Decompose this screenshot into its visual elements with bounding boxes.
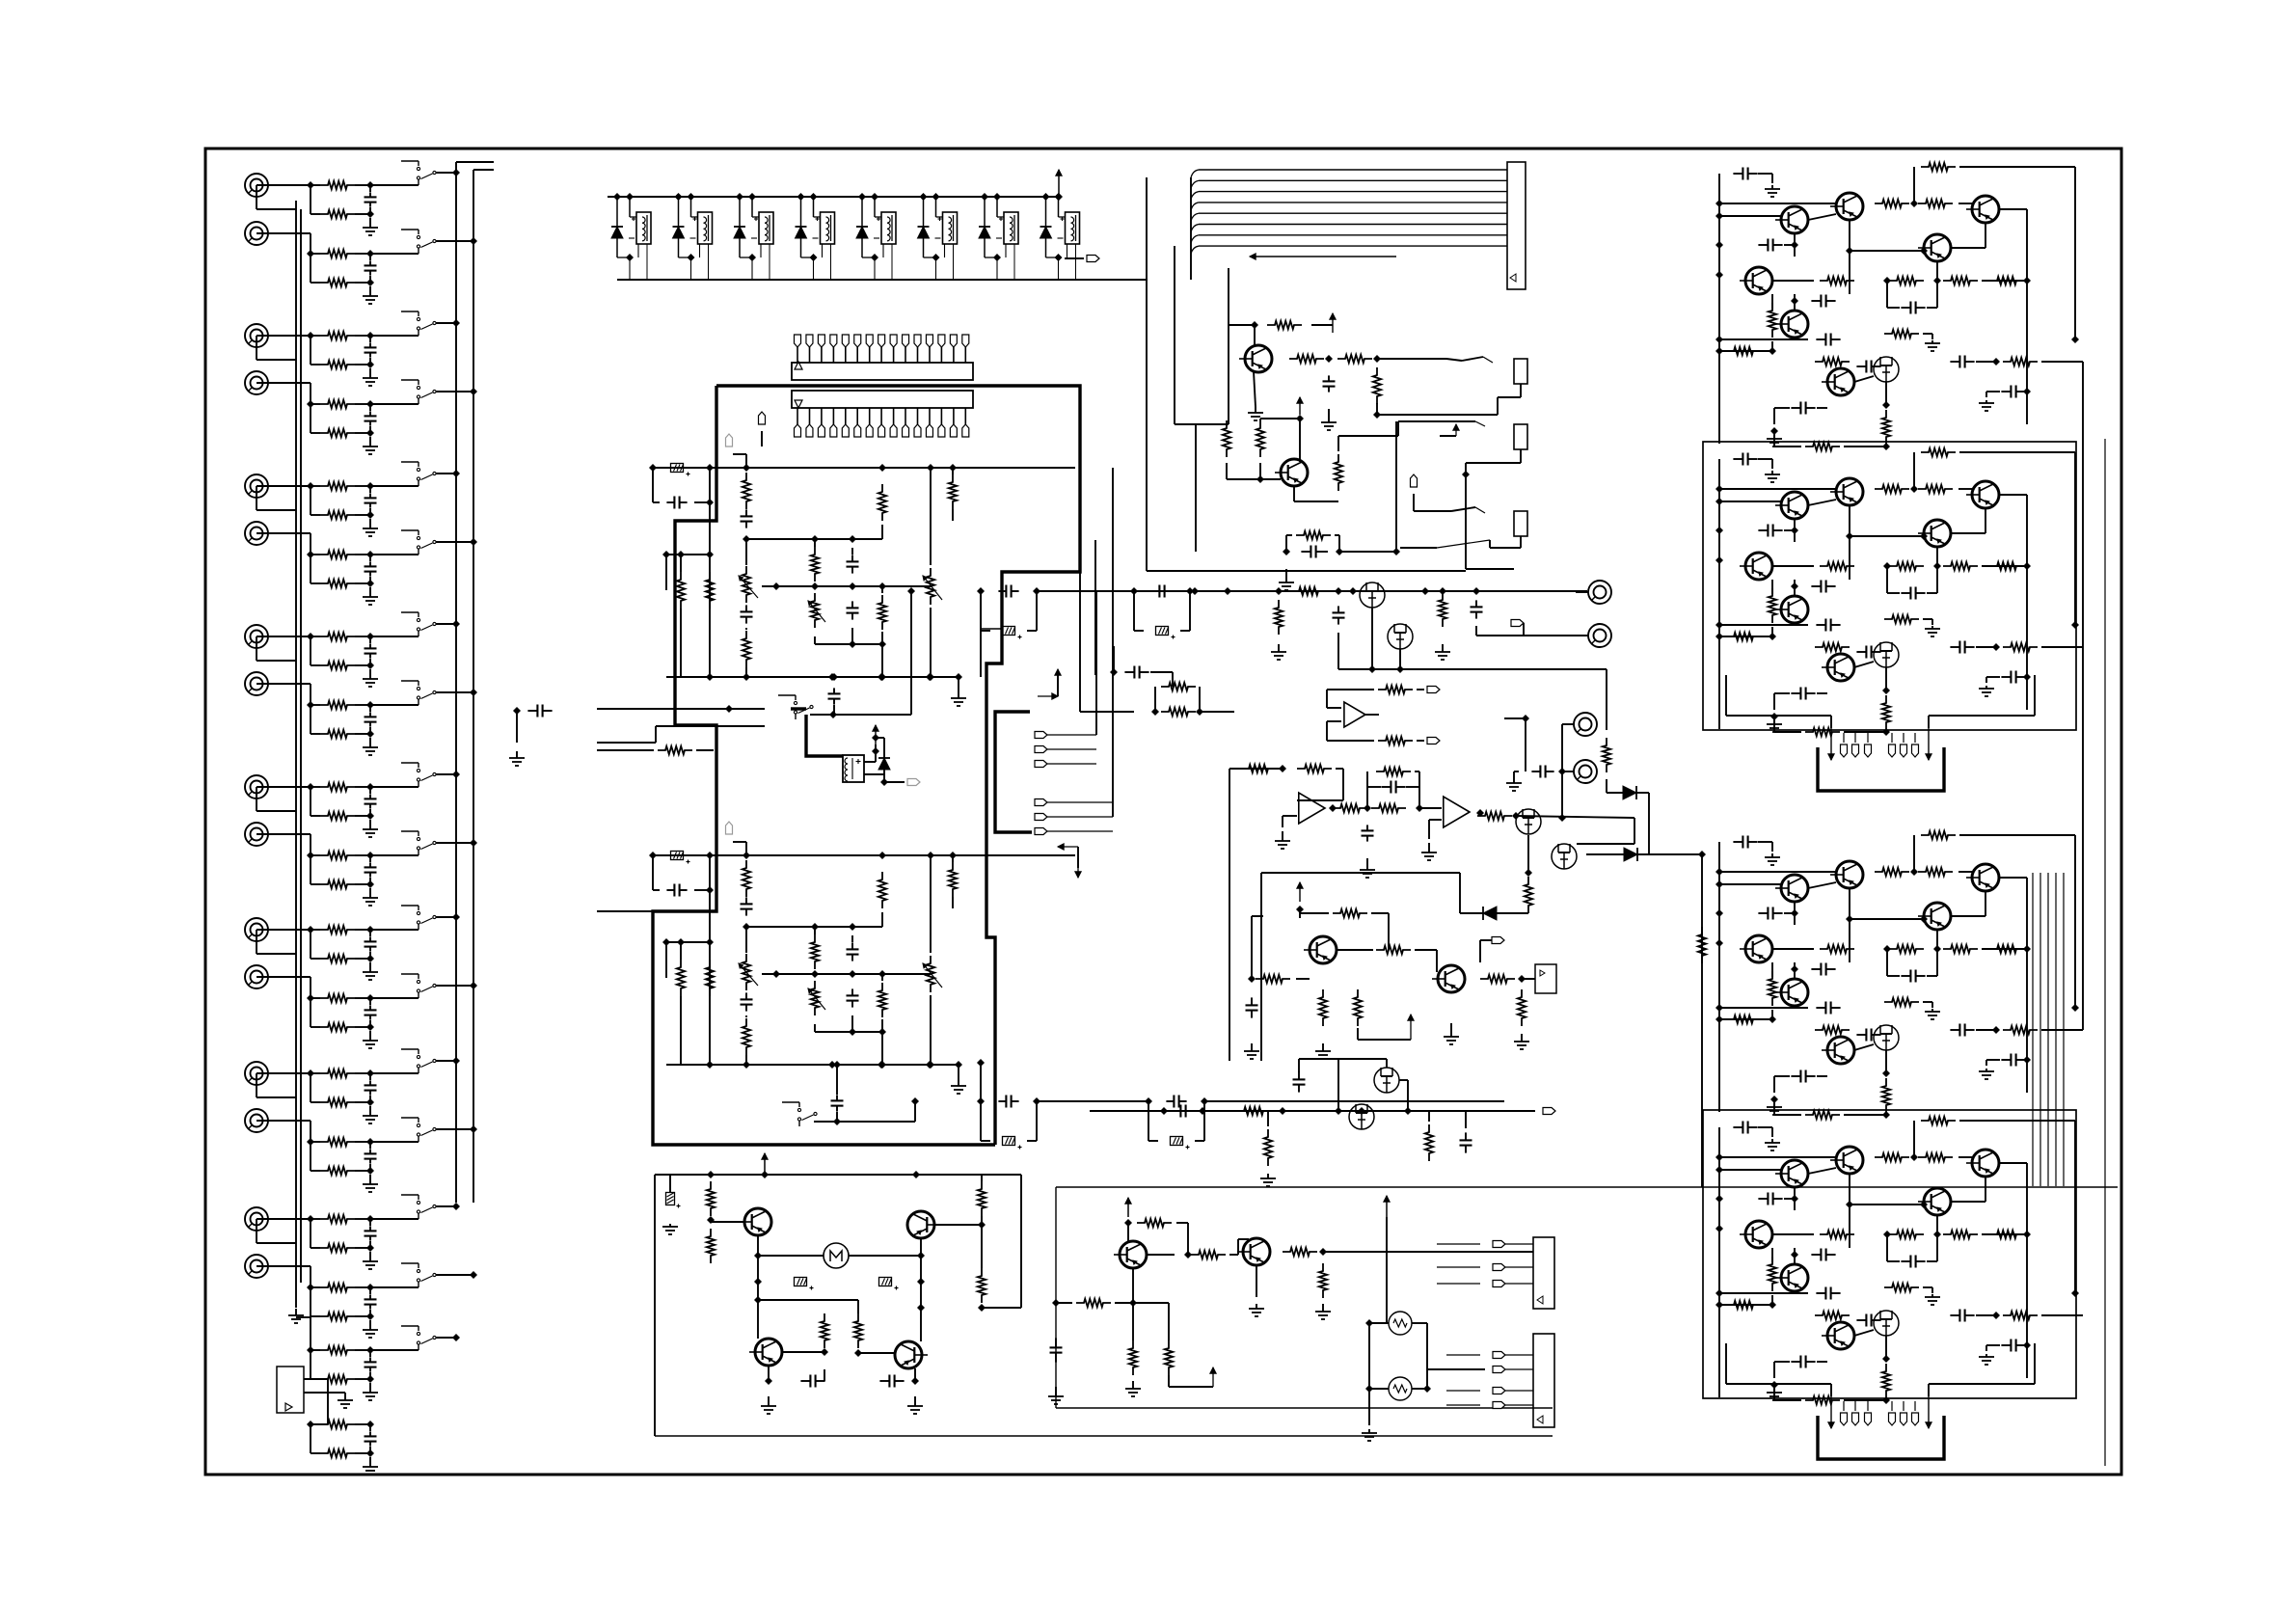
- resistor: [1354, 989, 1362, 1026]
- wire: [1147, 1254, 1175, 1256]
- coupling capacitor pair: [1130, 585, 1194, 639]
- wire: [1337, 949, 1373, 951]
- capacitor: [1887, 566, 1937, 600]
- capacitor: [1856, 1029, 1880, 1042]
- wire: [1771, 294, 1773, 309]
- wire: [1427, 1368, 1485, 1370]
- ground: [1925, 1294, 1940, 1305]
- capacitor: [1362, 825, 1374, 841]
- capacitor: [1816, 334, 1840, 346]
- resistor: [1256, 975, 1290, 983]
- resistor: [1319, 989, 1327, 1026]
- wire: [878, 1032, 886, 1069]
- diode: [1623, 786, 1636, 799]
- transistor Q3: [1966, 864, 1999, 891]
- arrow: [1828, 728, 1834, 760]
- resistor: [1921, 1117, 1956, 1124]
- wire: [1300, 909, 1389, 918]
- ribbon cable: [1191, 170, 1507, 254]
- ground: [1765, 185, 1780, 197]
- fet mute Q: [1388, 624, 1413, 649]
- ground: [1506, 771, 1522, 791]
- ground: [1925, 626, 1940, 636]
- input switch S6: [401, 530, 436, 555]
- capacitor: [847, 555, 859, 573]
- resistor: [743, 631, 750, 667]
- resistor: [1155, 683, 1200, 712]
- resistor: [1815, 643, 1850, 651]
- wire bus: [762, 582, 931, 590]
- wire: [1229, 1239, 1249, 1255]
- resistor: [854, 1313, 862, 1348]
- input switch S12: [401, 974, 436, 998]
- resistor: [1769, 588, 1776, 623]
- wire: [878, 644, 886, 681]
- resistor: [1774, 1099, 1890, 1119]
- RCA input jack J14: [245, 1109, 268, 1132]
- wire: [1369, 1385, 1431, 1393]
- wire: [1338, 1059, 1387, 1111]
- potentiometer: [739, 954, 758, 990]
- page border frame: [205, 149, 2121, 1475]
- RC input network 16: [307, 1284, 378, 1338]
- wire bus: [1056, 1186, 2118, 1188]
- capacitor: [1758, 233, 1798, 257]
- connector pins: [1841, 733, 1919, 757]
- wire: [662, 502, 714, 677]
- wire: [824, 1369, 825, 1381]
- input switch S7: [401, 612, 436, 636]
- wire: [782, 1348, 828, 1356]
- line-out bus wire: [1064, 587, 1587, 595]
- resistor: [1774, 717, 1890, 736]
- resistor: [1989, 277, 2024, 284]
- wire: [854, 1349, 895, 1357]
- RCA output jack: [1576, 581, 1611, 604]
- junction: [1770, 1381, 1778, 1389]
- wire: [1849, 505, 1850, 580]
- wire: [1850, 250, 1924, 252]
- junction: [1920, 532, 1928, 540]
- wire: [907, 587, 915, 715]
- wire: [1719, 489, 1836, 501]
- wire: [509, 711, 525, 766]
- ground: [1765, 471, 1780, 482]
- ground: [907, 1396, 923, 1414]
- signal path (thick): [653, 386, 1080, 1145]
- junction: [1933, 277, 1941, 284]
- arrow: [1926, 1396, 1931, 1428]
- wire: [370, 237, 477, 254]
- headphone jack: [1490, 511, 1527, 548]
- wire: [370, 620, 460, 636]
- resistor: [1943, 945, 1978, 953]
- capacitor: [847, 942, 859, 961]
- resistor: [1875, 868, 1909, 876]
- wire: [1419, 808, 1442, 839]
- junction: [743, 535, 750, 543]
- resistor: [1918, 200, 1953, 207]
- fet Q: [1516, 809, 1541, 834]
- wire: [1175, 423, 1229, 425]
- capacitor: [1719, 168, 1772, 199]
- transistor Q4: [1918, 234, 1951, 261]
- wire: [1767, 1010, 1776, 1023]
- junction: [1770, 713, 1778, 720]
- input switch S13: [401, 1049, 436, 1073]
- capacitor: [1816, 1287, 1840, 1300]
- resistor: [1726, 1301, 1761, 1309]
- bus wire: [1715, 866, 1723, 1112]
- resistor: [1921, 163, 1956, 171]
- resistor: [821, 1313, 828, 1348]
- capacitor: [1811, 1249, 1835, 1261]
- capacitor: [1758, 902, 1798, 925]
- wire: [1358, 1015, 1414, 1040]
- transistor Q2: [1830, 193, 1863, 220]
- capacitor: [1719, 453, 1772, 484]
- fet Q8: [1874, 1025, 1899, 1050]
- fet Q: [1374, 1068, 1399, 1093]
- resistor: [1889, 277, 1924, 284]
- resistor: [978, 1181, 986, 1216]
- diode: [1586, 848, 1706, 861]
- resistor: [743, 473, 750, 509]
- resistor: [1297, 765, 1332, 772]
- junction: [1251, 321, 1258, 329]
- wire: [1283, 816, 1297, 827]
- RCA input jack J8: [245, 672, 268, 695]
- wire: [981, 591, 1134, 677]
- ground: [1260, 1174, 1276, 1186]
- transistor Q1: [1775, 492, 1808, 519]
- arrow: [1125, 1198, 1131, 1217]
- resistor: [1943, 277, 1978, 284]
- wire: [1719, 1007, 1808, 1009]
- resistor: [1774, 1385, 1890, 1404]
- ground: [1244, 1043, 1331, 1059]
- capacitor: [1986, 386, 2026, 398]
- resistor: [1884, 998, 1932, 1008]
- transistor Q: [1114, 1241, 1147, 1268]
- wire: [1080, 540, 1134, 712]
- RC input network 3: [307, 332, 378, 386]
- resistor: [706, 572, 714, 609]
- power arrow: [1056, 170, 1062, 197]
- wire: [1951, 223, 1985, 248]
- wire: [1636, 793, 1649, 854]
- wire: [1338, 421, 1398, 451]
- junction: [1364, 804, 1371, 812]
- wire: [597, 910, 653, 912]
- RC input network 14: [307, 1138, 378, 1192]
- resistor: [1425, 1124, 1433, 1161]
- wire: [746, 525, 882, 543]
- wire: [1767, 627, 1776, 640]
- potentiometer: [808, 981, 825, 1015]
- resistor: [1918, 1153, 1953, 1161]
- wire: [1369, 1322, 1389, 1324]
- wire: [1854, 1330, 1874, 1336]
- arrow: [1058, 844, 1081, 878]
- transistor Q motor3: [749, 1339, 782, 1366]
- wire: [1227, 463, 1281, 483]
- wire: [1929, 1343, 2035, 1396]
- wire: [257, 636, 296, 661]
- wire: [370, 689, 477, 705]
- wire: [1701, 854, 1703, 1187]
- wire: [1260, 419, 1300, 462]
- resistor: [677, 938, 685, 1065]
- wire: [1327, 721, 1374, 741]
- headphone jack: [1462, 424, 1527, 478]
- transistor Q: [1239, 345, 1272, 372]
- wire: [1719, 350, 1769, 352]
- flag: [1504, 1108, 1555, 1115]
- wire: [1229, 765, 1286, 1061]
- fet Q: [1349, 1104, 1374, 1129]
- wire: [370, 1203, 460, 1219]
- input switch S17: [401, 1326, 436, 1350]
- input switch S9: [401, 763, 436, 787]
- RC input network 18: [307, 1421, 378, 1475]
- junction: [743, 923, 750, 931]
- selector bus wire: [456, 162, 473, 1203]
- junction: [1184, 1251, 1192, 1259]
- wire: [1296, 978, 1310, 980]
- resistor: [1815, 358, 1850, 365]
- wire: [1373, 397, 1498, 419]
- wire: [1476, 626, 1524, 636]
- wire: [1252, 916, 1263, 979]
- electrolytic capacitor: [671, 464, 690, 476]
- wire: [1854, 376, 1874, 382]
- flag: [1480, 937, 1504, 963]
- junction: [1124, 1219, 1132, 1227]
- arrow: [762, 1153, 768, 1175]
- wire: [1415, 950, 1437, 972]
- bus wire: [1715, 1151, 1723, 1397]
- capacitor: [666, 497, 687, 509]
- wire: [1558, 724, 1566, 822]
- wire: [754, 1282, 858, 1313]
- wire: [745, 539, 747, 677]
- coupling capacitor pair: [977, 1096, 1040, 1150]
- wire: [1133, 1303, 1169, 1340]
- capacitor: [1246, 997, 1258, 1017]
- resistor: [1726, 633, 1761, 640]
- junction: [1055, 193, 1063, 201]
- wire: [2033, 873, 2064, 1186]
- wire to flag: [1065, 256, 1099, 262]
- electrolytic capacitor: [754, 1278, 814, 1290]
- resistor: [878, 586, 886, 648]
- wire: [257, 787, 296, 811]
- wire: [1808, 214, 1836, 220]
- junction: [1296, 906, 1304, 913]
- wire: [653, 855, 714, 894]
- capacitor: [741, 509, 753, 528]
- wire: [1466, 474, 1514, 569]
- ground: [1767, 435, 1782, 447]
- ribbon connector CN: [1507, 162, 1526, 289]
- wire: [1525, 835, 1532, 877]
- wire: [1854, 662, 1874, 667]
- capacitor: [1719, 836, 1772, 867]
- resistor: [1882, 410, 1890, 445]
- resistor: [1884, 615, 1932, 625]
- wire: [1719, 203, 1836, 216]
- capacitor: [1774, 402, 1827, 425]
- wire: [1914, 1121, 2079, 1297]
- wire: [1791, 580, 1798, 596]
- transistor Q7: [1822, 654, 1854, 681]
- RCA input jack J5: [245, 474, 268, 498]
- wire: [257, 834, 311, 855]
- wire: [757, 1256, 759, 1282]
- resistor: [1333, 909, 1367, 917]
- capacitor: [1950, 1310, 2000, 1322]
- wire: [257, 1072, 311, 1074]
- junction: [1518, 975, 1526, 983]
- wire: [257, 1218, 311, 1220]
- wire: [370, 982, 477, 998]
- transistor Q5: [1740, 267, 1772, 294]
- transistor Q1: [1775, 875, 1808, 902]
- electrolytic capacitor: [879, 1256, 926, 1290]
- resistor: [1882, 1078, 1890, 1113]
- ground: [1249, 1304, 1264, 1316]
- wire: [1951, 1177, 1985, 1202]
- capacitor: [1887, 949, 1937, 983]
- muting relay RY2 with diode: [673, 193, 713, 280]
- fet mute Q: [1360, 582, 1385, 608]
- arrow: [1384, 1196, 1390, 1217]
- flag: [759, 412, 766, 447]
- RCA input jack J9: [245, 775, 268, 798]
- wire bus: [1056, 1407, 1553, 1409]
- resistor: [1875, 1153, 1909, 1161]
- wire: [1719, 1304, 1769, 1306]
- wire: [1115, 1268, 1137, 1307]
- ground: [951, 1061, 966, 1094]
- wire bus: [649, 852, 1075, 859]
- resistor: [878, 872, 886, 912]
- header pins (15, down): [795, 408, 969, 437]
- wire: [1399, 649, 1401, 669]
- RC input network 13: [307, 1069, 378, 1123]
- resistor: [1525, 877, 1532, 913]
- capacitor: [741, 897, 753, 915]
- ground: [1048, 1387, 1064, 1404]
- junction: [1522, 715, 1529, 722]
- capacitor: [847, 988, 859, 1007]
- muting relay RY4 with diode: [796, 193, 835, 280]
- resistor: [1769, 971, 1776, 1006]
- muting relay RY8 with diode: [1040, 193, 1080, 280]
- pin header CN-A: [792, 362, 973, 380]
- junction: [2023, 1341, 2031, 1349]
- arrow: [1038, 669, 1061, 699]
- RCA meter jack: [1562, 760, 1597, 783]
- board interconnect pins: [1035, 732, 1113, 835]
- capacitor: [1110, 646, 1173, 687]
- wire: [257, 930, 296, 954]
- header pins (15, up): [795, 335, 969, 363]
- resistor: [1264, 1129, 1272, 1166]
- wire: [917, 1282, 925, 1312]
- resistor: [1989, 562, 2024, 570]
- resistor: [1367, 768, 1419, 808]
- input switch S3: [401, 311, 436, 336]
- capacitor: [828, 673, 841, 715]
- wire: [257, 533, 311, 555]
- junction: [1920, 915, 1928, 923]
- capacitor: [1774, 1070, 1827, 1094]
- capacitor: [1856, 646, 1880, 659]
- ground: [761, 1396, 776, 1414]
- resistor: [1884, 330, 1932, 339]
- junction: [1910, 868, 1918, 876]
- resistor: [1275, 600, 1283, 635]
- transistor Q5: [1740, 1221, 1772, 1248]
- resistor: [1223, 420, 1230, 457]
- capacitor: [1986, 1054, 2026, 1067]
- potentiometer: [923, 568, 942, 605]
- wire bus: [1090, 1107, 1504, 1115]
- ground: [1979, 400, 1994, 411]
- resistor: [1921, 831, 1956, 839]
- capacitor: [1758, 1187, 1798, 1210]
- capacitor: [1471, 600, 1483, 618]
- resistor: [706, 960, 714, 996]
- wire: [1999, 1163, 2027, 1378]
- resistor: [707, 1181, 715, 1216]
- resistor: [1283, 1248, 1317, 1256]
- junction: [1512, 812, 1520, 820]
- capacitor: [831, 1061, 844, 1122]
- transistor Q3: [1966, 196, 1999, 223]
- input switch S4: [401, 380, 436, 404]
- resistor: [1820, 562, 1854, 570]
- arrow: [1926, 728, 1931, 760]
- wire: [745, 927, 747, 1065]
- resistor: [878, 484, 886, 525]
- connector CN-D: [1533, 1334, 1554, 1427]
- resistor: [2003, 358, 2083, 365]
- ground: [1767, 1389, 1782, 1400]
- resistor: [949, 852, 957, 908]
- diode: [878, 744, 890, 782]
- wire: [1311, 324, 1333, 326]
- wire: [1791, 962, 1798, 979]
- junction: [1365, 1319, 1373, 1327]
- ground: [1925, 1009, 1940, 1019]
- RCA input jack J3: [245, 324, 268, 347]
- flag: [726, 434, 747, 468]
- wire bus: [762, 970, 931, 978]
- resistor: [1335, 454, 1342, 491]
- wire: [1958, 203, 1972, 204]
- ground: [1360, 858, 1375, 878]
- resistor: [1875, 200, 1909, 207]
- wire: [1882, 667, 1890, 694]
- input switch S8: [401, 681, 436, 705]
- wire: [1914, 835, 2079, 1012]
- wire: [257, 485, 311, 487]
- wire: [1368, 1389, 1370, 1425]
- input switch S14: [401, 1118, 436, 1142]
